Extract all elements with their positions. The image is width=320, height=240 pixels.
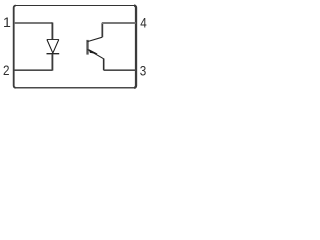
- LED D1 triangle sides: [47, 40, 59, 54]
- package outline left edge: [14, 6, 16, 88]
- LED D1 cathode bar: [47, 53, 60, 55]
- wire pin 1 to LED anode: [14, 22, 52, 24]
- LED D1 anode edge: [47, 39, 59, 41]
- svg-text:4: 4: [140, 15, 147, 31]
- svg-text:2: 2: [3, 62, 10, 78]
- package outline right edge: [134, 6, 136, 88]
- package outline top edge: [15, 5, 134, 7]
- package outline bottom edge: [15, 87, 134, 89]
- svg-text:1: 1: [3, 14, 11, 30]
- phototransistor Q1 collector diagonal: [87, 37, 102, 41]
- phototransistor Q1 emitter diagonal: [88, 49, 104, 58]
- svg-text:3: 3: [140, 63, 147, 79]
- wire emitter vertical: [103, 59, 105, 71]
- wire LED anode vertical: [51, 23, 53, 40]
- wire pin 2 to LED cathode: [14, 69, 52, 71]
- wire LED cathode vertical: [51, 54, 53, 71]
- phototransistor Q1 base bar: [86, 40, 88, 55]
- wire emitter to pin 3: [104, 69, 136, 71]
- wire collector vertical: [101, 23, 103, 37]
- wire collector to pin 4: [102, 22, 136, 24]
- phototransistor Q1 emitter arrowhead: [89, 50, 97, 54]
